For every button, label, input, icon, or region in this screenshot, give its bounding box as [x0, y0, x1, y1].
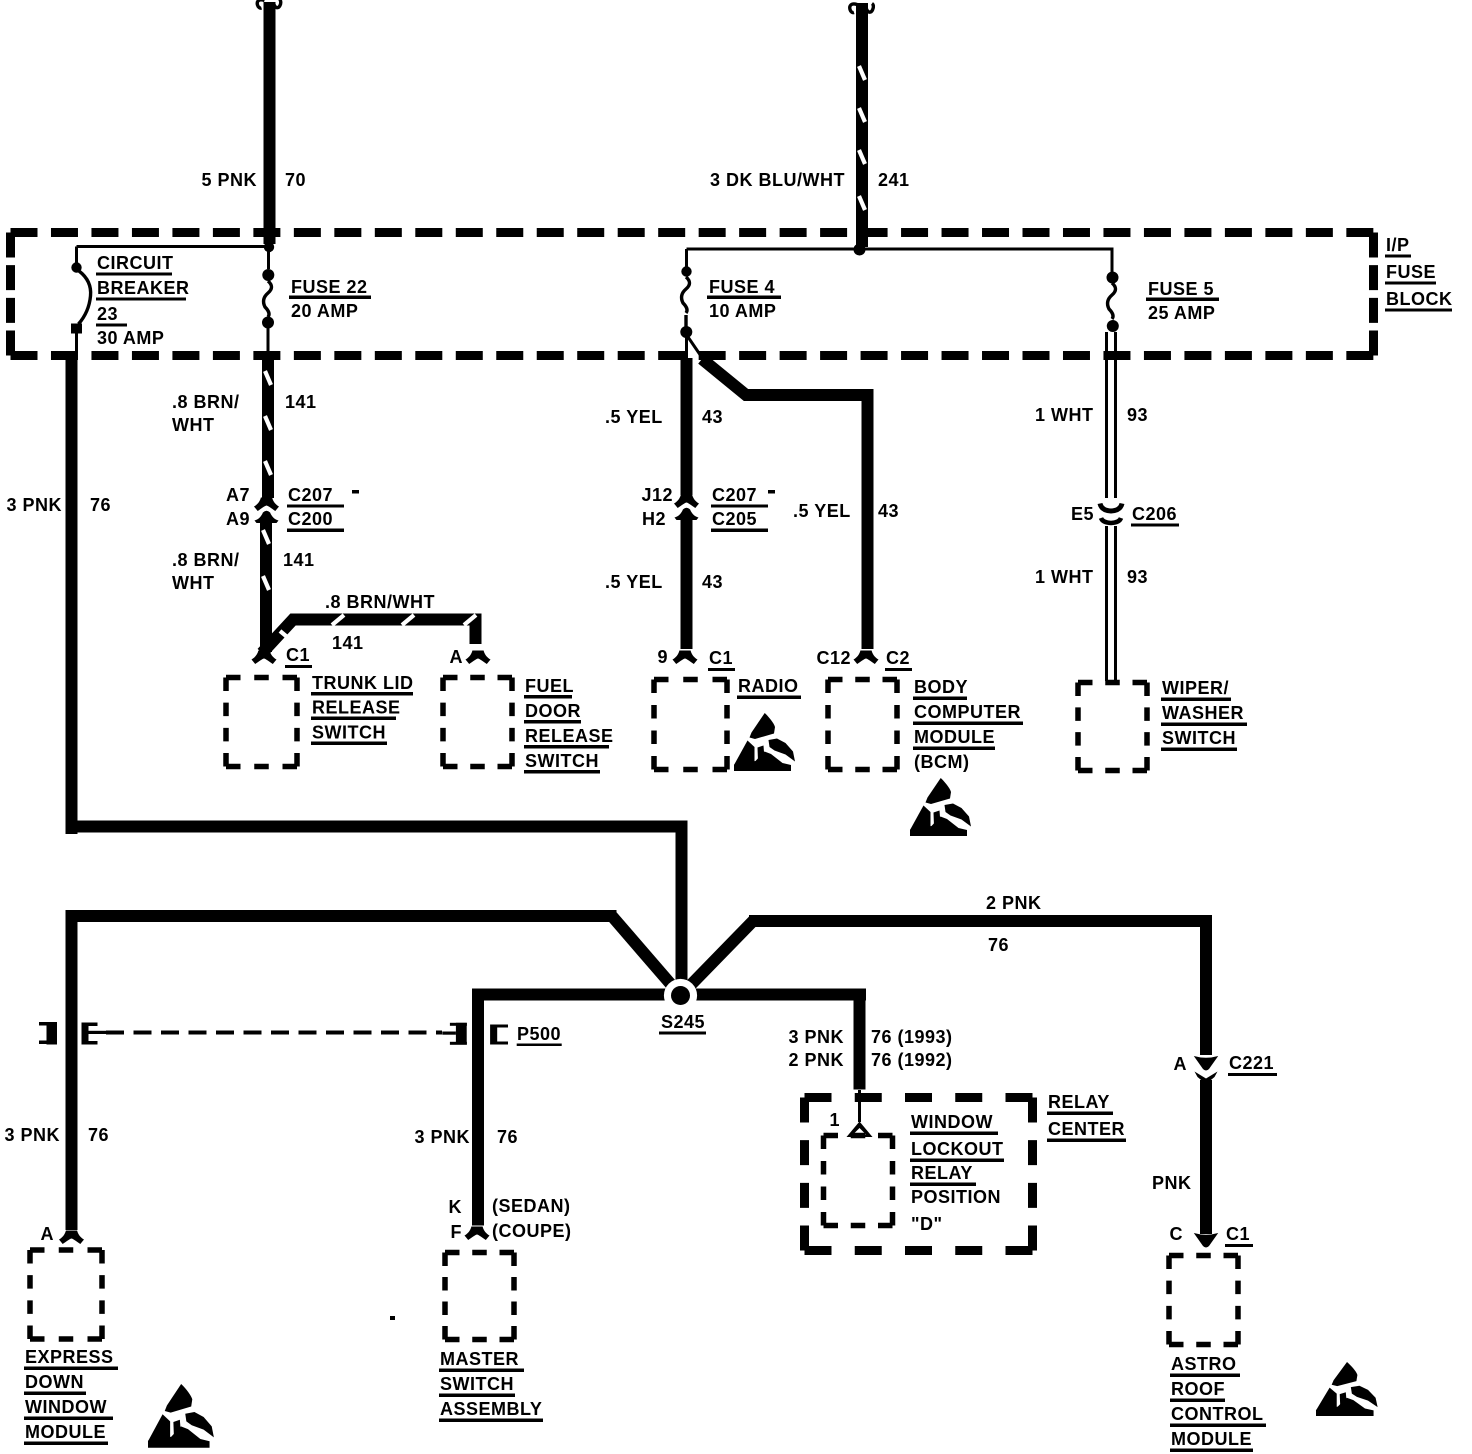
- wire: .5 YEL 43 from fuse 4 to BCM: [702, 359, 868, 649]
- connector P500 pass-through (right wire halves): [442, 1023, 508, 1045]
- svg-text:C207: C207: [712, 485, 757, 505]
- svg-text:70: 70: [285, 170, 306, 190]
- svg-text:9: 9: [657, 647, 668, 667]
- label EXPRESS DOWN WINDOW MODULE: [24, 1347, 118, 1445]
- pin K/F into master switch assembly: [465, 1227, 490, 1241]
- wire: 2 PNK 76 bus to C221: [749, 915, 1212, 1055]
- wire: .5 YEL 43 below connector to radio: [681, 518, 693, 649]
- label FUSE 4 10 AMP: [707, 277, 781, 321]
- svg-text:25 AMP: 25 AMP: [1148, 303, 1215, 323]
- label J12 H2 C207 C205: [641, 485, 775, 532]
- svg-text:141: 141: [332, 633, 364, 653]
- svg-text:SWITCH: SWITCH: [1162, 728, 1236, 748]
- svg-text:FUSE 5: FUSE 5: [1148, 279, 1214, 299]
- svg-text:A: A: [450, 647, 464, 667]
- wire W2 3 DK BLU/WHT feed from top: [850, 3, 874, 247]
- wiper/washer switch box: [1078, 683, 1147, 771]
- svg-text:141: 141: [283, 550, 315, 570]
- fuse 5 25 AMP: [1107, 249, 1119, 332]
- svg-text:CIRCUIT: CIRCUIT: [97, 253, 174, 273]
- wire: 3 PNK 76 from breaker down-left side: [66, 352, 688, 997]
- trunk lid release switch box: [226, 678, 297, 767]
- svg-text:S245: S245: [661, 1012, 705, 1032]
- body computer module box: [828, 680, 897, 770]
- svg-text:SWITCH: SWITCH: [312, 723, 386, 743]
- svg-text:ASSEMBLY: ASSEMBLY: [440, 1399, 542, 1419]
- label E5 C206: [1071, 504, 1179, 527]
- wire: .8 BRN/WHT 141 from fuse 22: [262, 352, 274, 498]
- label 3 PNK 76 (1993) / 2 PNK 76 (1992): [788, 1027, 952, 1070]
- svg-text:76: 76: [497, 1127, 518, 1147]
- svg-text:I/P: I/P: [1386, 235, 1410, 255]
- svg-text:H2: H2: [642, 509, 666, 529]
- label .5 YEL 43 (BCM): [793, 501, 899, 521]
- svg-text:CENTER: CENTER: [1048, 1119, 1125, 1139]
- svg-text:WINDOW: WINDOW: [25, 1397, 107, 1417]
- ESD symbol (astro): [1316, 1362, 1378, 1416]
- pin 9 C1 into radio: [657, 647, 735, 671]
- fuel door release switch box: [443, 678, 512, 767]
- svg-text:10 AMP: 10 AMP: [709, 301, 776, 321]
- pin 1 of window lockout relay: [829, 1090, 872, 1137]
- svg-text:2 PNK: 2 PNK: [788, 1050, 844, 1070]
- svg-text:RELEASE: RELEASE: [525, 726, 614, 746]
- svg-text:MODULE: MODULE: [25, 1422, 106, 1442]
- svg-text:A: A: [1174, 1054, 1188, 1074]
- svg-text:C205: C205: [712, 509, 757, 529]
- svg-text:BODY: BODY: [914, 677, 968, 697]
- svg-text:COMPUTER: COMPUTER: [914, 702, 1021, 722]
- label 3 PNK 76 (master leg): [414, 1127, 518, 1147]
- label 3 PNK 76 (express leg): [4, 1125, 109, 1145]
- svg-text:EXPRESS: EXPRESS: [25, 1347, 114, 1367]
- astro roof control module box: [1169, 1256, 1238, 1345]
- label WINDOW LOCKOUT RELAY POSITION "D": [910, 1112, 1004, 1234]
- label 2 PNK 76: [986, 893, 1042, 955]
- svg-text:C12: C12: [816, 648, 851, 668]
- svg-text:C1: C1: [709, 648, 733, 668]
- svg-text:A: A: [41, 1224, 55, 1244]
- label .5 YEL 43 (lower): [605, 572, 723, 592]
- svg-text:DOOR: DOOR: [525, 701, 581, 721]
- svg-text:FUEL: FUEL: [525, 676, 574, 696]
- label 1 WHT 93 (upper): [1035, 405, 1148, 425]
- svg-text:5 PNK: 5 PNK: [201, 170, 257, 190]
- label .8 BRN/WHT 141 (lower): [172, 550, 315, 593]
- svg-text:.8 BRN/: .8 BRN/: [172, 392, 240, 412]
- svg-text:ROOF: ROOF: [1171, 1379, 1225, 1399]
- svg-text:23: 23: [97, 304, 118, 324]
- svg-text:C206: C206: [1132, 504, 1177, 524]
- pin C C1 into astro roof module: [1170, 1224, 1254, 1248]
- svg-text:WHT: WHT: [172, 573, 214, 593]
- svg-text:RELEASE: RELEASE: [312, 698, 401, 718]
- master switch assembly box: [445, 1253, 514, 1340]
- svg-text:C207: C207: [288, 485, 333, 505]
- label A C221: [1174, 1053, 1278, 1076]
- ESD symbol (BCM): [910, 778, 971, 836]
- svg-text:43: 43: [878, 501, 899, 521]
- svg-text:BLOCK: BLOCK: [1386, 289, 1453, 309]
- svg-text:2 PNK: 2 PNK: [986, 893, 1042, 913]
- label RELAY CENTER: [1047, 1092, 1126, 1142]
- label P500: [517, 1024, 562, 1046]
- speck artifact: [390, 1316, 395, 1320]
- circuit breaker 23 30 AMP: [71, 247, 91, 354]
- svg-text:1 WHT: 1 WHT: [1035, 567, 1094, 587]
- connector C221 pin A: [1194, 1056, 1218, 1084]
- label FUEL DOOR RELEASE SWITCH: [524, 676, 614, 774]
- label .5 YEL 43 (upper): [605, 407, 723, 427]
- node: junction dot under W2 and thin bus to fuses 4 and 5: [687, 244, 1113, 256]
- svg-text:SWITCH: SWITCH: [525, 751, 599, 771]
- connector P500 pass-through (left wire halves): [39, 1022, 106, 1045]
- svg-text:P500: P500: [517, 1024, 561, 1044]
- svg-text:C2: C2: [886, 648, 910, 668]
- svg-text:FUSE 22: FUSE 22: [291, 277, 368, 297]
- svg-text:RADIO: RADIO: [738, 676, 799, 696]
- svg-text:WIPER/: WIPER/: [1162, 678, 1229, 698]
- svg-text:1 WHT: 1 WHT: [1035, 405, 1094, 425]
- svg-text:(BCM): (BCM): [914, 752, 969, 772]
- svg-text:TRUNK LID: TRUNK LID: [312, 673, 414, 693]
- svg-text:(SEDAN): (SEDAN): [492, 1196, 571, 1216]
- label I/P FUSE BLOCK: [1385, 235, 1453, 312]
- svg-text:DOWN: DOWN: [25, 1372, 84, 1392]
- node: thin bus from breaker to fuse 22: [77, 245, 270, 248]
- svg-text:WASHER: WASHER: [1162, 703, 1244, 723]
- label TRUNK LID RELEASE SWITCH: [311, 673, 414, 745]
- label MASTER SWITCH ASSEMBLY: [439, 1349, 543, 1422]
- svg-text:"D": "D": [911, 1214, 943, 1234]
- svg-text:FUSE 4: FUSE 4: [709, 277, 775, 297]
- svg-text:C: C: [1170, 1224, 1184, 1244]
- svg-text:76 (1992): 76 (1992): [871, 1050, 953, 1070]
- connector C207/C205 pins J12 H2: [674, 495, 699, 521]
- svg-text:MODULE: MODULE: [914, 727, 995, 747]
- connector C206 pin E5: [1100, 504, 1122, 524]
- svg-text:RELAY: RELAY: [911, 1163, 973, 1183]
- svg-text:LOCKOUT: LOCKOUT: [911, 1139, 1004, 1159]
- svg-text:.5 YEL: .5 YEL: [605, 572, 663, 592]
- express down window module box: [30, 1250, 102, 1339]
- svg-text:3 PNK: 3 PNK: [6, 495, 62, 515]
- svg-text:.8 BRN/WHT: .8 BRN/WHT: [325, 592, 435, 612]
- svg-text:MASTER: MASTER: [440, 1349, 519, 1369]
- label 3 PNK 76 (left upper): [6, 495, 111, 515]
- wire: P500 dashed link: [106, 1031, 442, 1035]
- fuse 22 20 AMP: [262, 242, 274, 353]
- pin C12 C2 into BCM: [816, 648, 912, 671]
- label 5 PNK 70: [201, 170, 306, 190]
- svg-text:43: 43: [702, 572, 723, 592]
- svg-text:POSITION: POSITION: [911, 1187, 1001, 1207]
- svg-text:43: 43: [702, 407, 723, 427]
- svg-text:SWITCH: SWITCH: [440, 1374, 514, 1394]
- label ASTRO ROOF CONTROL MODULE: [1170, 1354, 1266, 1452]
- ESD symbol (express): [148, 1384, 214, 1448]
- svg-text:WINDOW: WINDOW: [911, 1112, 993, 1132]
- svg-text:93: 93: [1127, 405, 1148, 425]
- svg-text:ASTRO: ASTRO: [1171, 1354, 1237, 1374]
- svg-text:3 PNK: 3 PNK: [788, 1027, 844, 1047]
- radio box: [654, 680, 727, 770]
- svg-text:C200: C200: [288, 509, 333, 529]
- pin A into express down window module: [41, 1224, 85, 1244]
- svg-text:WHT: WHT: [172, 415, 214, 435]
- wire W1 5 PNK feed from top: [257, 0, 280, 244]
- wire: S245 left branch to master switch: [472, 989, 682, 1226]
- window lockout relay box: [824, 1136, 893, 1226]
- svg-text:PNK: PNK: [1152, 1173, 1192, 1193]
- label BODY COMPUTER MODULE (BCM): [913, 677, 1023, 772]
- wire: 1 WHT 93 below connector (double line): [1107, 526, 1116, 681]
- wire: diagonal into S245 from left bus: [611, 915, 681, 996]
- svg-text:MODULE: MODULE: [1171, 1429, 1252, 1449]
- svg-text:76: 76: [90, 495, 111, 515]
- svg-text:A7: A7: [226, 485, 250, 505]
- label A7 A9 C207 C200: [226, 485, 359, 532]
- label 3 DK BLU/WHT 241: [710, 170, 910, 190]
- svg-text:93: 93: [1127, 567, 1148, 587]
- svg-text:141: 141: [285, 392, 317, 412]
- svg-text:76: 76: [988, 935, 1009, 955]
- svg-text:1: 1: [829, 1110, 840, 1130]
- label K (SEDAN) F (COUPE): [449, 1196, 572, 1242]
- label .8 BRN/WHT 141 (branch): [325, 592, 435, 653]
- svg-text:C1: C1: [286, 645, 310, 665]
- wire: .8 BRN/WHT 141 below connector: [260, 521, 272, 652]
- wire: diagonal from S245 to 2 PNK bus: [680, 920, 754, 996]
- svg-text:241: 241: [878, 170, 910, 190]
- label 1 WHT 93 (lower): [1035, 567, 1148, 587]
- svg-text:76: 76: [88, 1125, 109, 1145]
- label CIRCUIT BREAKER 23 30 AMP: [96, 253, 190, 348]
- svg-text:E5: E5: [1071, 504, 1094, 524]
- label .8 BRN/WHT 141 (upper): [172, 392, 317, 435]
- svg-text:BREAKER: BREAKER: [97, 278, 190, 298]
- relay center outer box: [805, 1098, 1033, 1251]
- pin A into fuel door release switch: [450, 647, 491, 667]
- svg-text:C1: C1: [1226, 1224, 1250, 1244]
- svg-text:.5 YEL: .5 YEL: [793, 501, 851, 521]
- label FUSE 5 25 AMP: [1146, 279, 1219, 323]
- I/P fuse block dashed boundary: [11, 233, 1374, 356]
- fuse 4 10 AMP: [680, 249, 703, 359]
- svg-text:.5 YEL: .5 YEL: [605, 407, 663, 427]
- svg-text:J12: J12: [641, 485, 673, 505]
- wire: PNK to astro roof control module: [1200, 1080, 1212, 1234]
- svg-text:3 DK BLU/WHT: 3 DK BLU/WHT: [710, 170, 845, 190]
- svg-text:3 PNK: 3 PNK: [4, 1125, 60, 1145]
- svg-text:A9: A9: [226, 509, 250, 529]
- wire: branch .8 BRN/WHT 141 to fuel door release: [262, 615, 476, 653]
- svg-text:20 AMP: 20 AMP: [291, 301, 358, 321]
- svg-text:.8 BRN/: .8 BRN/: [172, 550, 240, 570]
- svg-text:F: F: [451, 1222, 463, 1242]
- wire: S245 right branch to window lockout relay: [680, 989, 866, 1090]
- svg-text:FUSE: FUSE: [1386, 262, 1436, 282]
- label FUSE 22 20 AMP: [289, 277, 371, 321]
- svg-text:30 AMP: 30 AMP: [97, 328, 164, 348]
- svg-text:76 (1993): 76 (1993): [871, 1027, 953, 1047]
- wire: .5 YEL 43 from fuse 4 to radio: [681, 358, 693, 495]
- wire: 1 WHT 93 from fuse 5 (double line): [1107, 332, 1116, 498]
- pin C1 into trunk lid release switch: [252, 645, 313, 668]
- svg-text:K: K: [449, 1197, 463, 1217]
- svg-text:CONTROL: CONTROL: [1171, 1404, 1264, 1424]
- connector C207/C200 pins A7 A9: [254, 498, 279, 524]
- splice S245: [659, 979, 706, 1035]
- label RADIO: [737, 676, 801, 699]
- svg-text:C221: C221: [1229, 1053, 1274, 1073]
- svg-text:3 PNK: 3 PNK: [414, 1127, 470, 1147]
- svg-text:(COUPE): (COUPE): [492, 1221, 572, 1241]
- svg-text:RELAY: RELAY: [1048, 1092, 1110, 1112]
- ESD symbol (radio): [734, 713, 795, 771]
- label WIPER/WASHER SWITCH: [1161, 678, 1247, 751]
- wire: left feed down to express window module: [66, 910, 617, 1230]
